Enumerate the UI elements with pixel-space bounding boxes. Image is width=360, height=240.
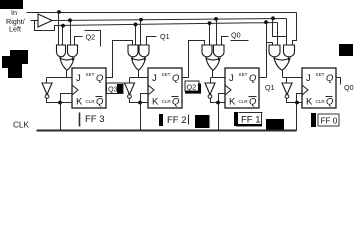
label Right/Left (6, 17, 25, 34)
wire rail3 direct control (57, 23, 278, 26)
svg-text:K: K (306, 97, 313, 108)
svg-text:Q1: Q1 (160, 32, 170, 41)
svg-text:FF 1: FF 1 (241, 115, 261, 126)
wire rail3 tap stage2 (135, 25, 137, 45)
svg-text:In: In (11, 8, 17, 17)
wire rail2 buffered control (53, 19, 287, 21)
wire K input (287, 99, 303, 103)
JK flip-flop FF 1 (225, 68, 259, 108)
buffer U1 (38, 14, 52, 27)
node dot clock-K crossing (138, 101, 142, 105)
wire clock feed (297, 94, 303, 131)
wire J input (211, 77, 225, 79)
node dot rail3 stage4 (264, 20, 268, 24)
wire OR output (138, 71, 140, 78)
wire rail2 tap stage2 (140, 20, 142, 45)
svg-text:J: J (152, 73, 157, 84)
wire J input (130, 77, 149, 79)
svg-text:Q: Q (249, 73, 257, 84)
wire J input (283, 77, 303, 79)
JK flip-flop FF 2 (148, 68, 182, 108)
wire Q1 feedback (259, 23, 273, 78)
AND gate G2 (68, 45, 78, 61)
label FF 3 (80, 113, 105, 127)
OR gate G11 (206, 58, 220, 70)
label Q1 top (160, 32, 170, 41)
svg-text:Q2: Q2 (187, 83, 197, 92)
label In (11, 8, 17, 17)
svg-text:SET: SET (239, 72, 248, 77)
node dot rail3 stage3 (208, 21, 212, 25)
label Q1 output (265, 83, 275, 92)
ink blob artifact right (339, 44, 353, 56)
node dot clock-K crossing (216, 101, 220, 105)
label FF 1 (234, 112, 263, 126)
ink blob artifact near FF2 (195, 115, 210, 128)
node dot rail2 stage2 (139, 18, 143, 22)
AND gate G5 (202, 45, 212, 61)
svg-text:CLK: CLK (13, 121, 29, 130)
inverter U5 input (286, 78, 288, 83)
svg-text:K: K (152, 97, 159, 108)
svg-text:Q: Q (326, 73, 334, 84)
svg-text:FF 3: FF 3 (85, 114, 105, 125)
wire K input (211, 99, 225, 103)
wire OR output (212, 71, 214, 78)
svg-text:FF 2: FF 2 (167, 115, 187, 126)
svg-text:SET: SET (86, 72, 95, 77)
label FF 0 (311, 113, 339, 127)
svg-text:CLR: CLR (86, 99, 96, 104)
AND gate G3 (128, 45, 138, 61)
svg-text:J: J (76, 73, 81, 84)
svg-text:Q: Q (96, 73, 104, 84)
wire K input (47, 99, 73, 103)
inverter U3 (125, 83, 135, 98)
wire rail2 tap stage3 (216, 19, 218, 45)
wire Q1 feedback entry (147, 37, 157, 45)
label Q0 top (231, 31, 249, 41)
svg-text:Q0: Q0 (344, 83, 354, 92)
wire clock feed (61, 94, 73, 131)
svg-text:Q: Q (326, 97, 334, 108)
OR gate G10 (132, 58, 146, 70)
JK flip-flop FF 0 (302, 68, 336, 108)
svg-text:J: J (306, 73, 311, 84)
node dot rail2 stage3 (214, 17, 218, 21)
svg-text:CLR: CLR (316, 99, 326, 104)
wire clock feed (219, 94, 225, 131)
AND gate G8 (284, 45, 295, 61)
wire In rail (27, 12, 297, 14)
node dot rail2 stage1 (68, 18, 72, 22)
wire In rail end elbow (293, 13, 297, 45)
ink blob artifact top-left (0, 0, 23, 9)
OR gate G12 (274, 58, 290, 70)
wire rail3 tap stage1 (62, 26, 64, 45)
AND gate G1 (57, 45, 66, 61)
wire rail2 tap stage1 (70, 21, 72, 45)
wire J input (47, 77, 73, 79)
svg-text:Q3: Q3 (108, 85, 118, 94)
inverter U4 (205, 83, 215, 98)
label Q0 output (344, 83, 354, 92)
AND gate G6 (214, 45, 225, 61)
node dot rail3 stage2 (134, 23, 138, 27)
JK flip-flop FF 3 (72, 68, 106, 108)
label CLK (13, 121, 29, 130)
wire Q2 feedback (183, 41, 205, 78)
inverter U2 input (46, 78, 48, 83)
inverter U5 (282, 83, 292, 98)
wire Q2 feedback entry (75, 37, 83, 45)
wire rail2 end elbow (286, 19, 288, 45)
label Q2 boxed (185, 81, 201, 94)
wire Right/Left input (31, 20, 39, 22)
svg-text:Q: Q (172, 73, 180, 84)
inverter U4 input (210, 78, 212, 83)
label FF 2 (159, 114, 189, 126)
svg-text:Left: Left (9, 25, 21, 34)
svg-text:J: J (229, 73, 234, 84)
svg-text:FF 0: FF 0 (321, 117, 338, 126)
wire Q0 output stub (337, 78, 341, 85)
node dot clock-K crossing (295, 101, 299, 105)
svg-text:Q: Q (249, 97, 257, 108)
wire rail3 bypass (35, 21, 57, 31)
wire In to AND G1 (58, 13, 60, 45)
ink blob artifact near FF1 (266, 119, 284, 131)
label Q3 boxed (107, 83, 124, 94)
label Q2 bracket (85, 31, 101, 47)
svg-text:Q2: Q2 (86, 33, 96, 42)
svg-text:SET: SET (162, 72, 171, 77)
ink blob artifact left cluster (2, 50, 28, 78)
node dot In rail stage1 (57, 10, 61, 14)
inverter U3 input (129, 78, 131, 83)
AND gate G7 (269, 45, 280, 61)
svg-text:K: K (229, 97, 236, 108)
OR gate G9 (60, 58, 74, 70)
wire OR output (66, 71, 68, 78)
svg-text:CLR: CLR (162, 99, 172, 104)
wire rail3 end elbow (277, 23, 279, 45)
node dot rail2 stage4 (271, 16, 275, 20)
wire K input (130, 99, 149, 103)
svg-text:Q: Q (172, 97, 180, 108)
inverter U2 (42, 83, 52, 98)
AND gate G4 (139, 45, 149, 61)
wire rail2 jog stage4 (273, 19, 287, 37)
svg-text:K: K (76, 97, 83, 108)
node dot rail3 stage1 (61, 24, 65, 28)
svg-text:SET: SET (316, 72, 325, 77)
svg-text:Q: Q (96, 97, 104, 108)
wire OR output (282, 71, 284, 78)
wire CLK rail (37, 130, 297, 132)
wire clock feed (141, 94, 149, 131)
svg-text:Q1: Q1 (265, 83, 275, 92)
svg-text:CLR: CLR (239, 99, 249, 104)
wire Q3 feedback (107, 41, 133, 78)
wire rail3 tap stage3 (209, 24, 211, 45)
node dot clock-K crossing (58, 101, 62, 105)
svg-text:Q0: Q0 (231, 31, 241, 40)
wire Q0 feedback entry (222, 37, 229, 45)
